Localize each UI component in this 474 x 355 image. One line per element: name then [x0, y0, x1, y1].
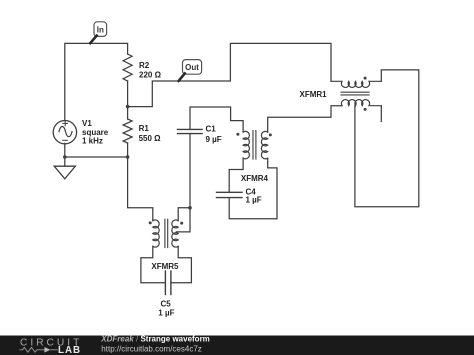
- wire C5 to XFMR5 right coil bottom: [171, 246, 192, 282]
- node junction C1/XFMR5: [188, 206, 192, 210]
- wire XFMR1 secondary right dangling stub: [380, 106, 382, 122]
- wire C4 bottom loop to XFMR4 right coil bottom: [229, 158, 277, 218]
- footer bar: [0, 335, 474, 355]
- voltage source V1: [53, 119, 109, 146]
- wire V1 bottom lead: [64, 143, 66, 157]
- capacitor C1: [178, 124, 222, 144]
- svg-text:C5: C5: [161, 300, 172, 309]
- svg-text:square: square: [82, 128, 109, 137]
- wire R2 bottom to R1 top: [127, 81, 129, 119]
- wire XFMR5 left coil bottom to C5: [141, 246, 166, 282]
- node junction V1/ground: [63, 155, 67, 159]
- wire Out net: [128, 43, 331, 106]
- transformer XFMR5: [149, 219, 184, 271]
- svg-text:1 µF: 1 µF: [246, 196, 262, 205]
- resistor R2: [123, 54, 161, 81]
- wire In net: V1 top to R2 top: [65, 43, 128, 120]
- svg-text:550 Ω: 550 Ω: [139, 134, 162, 143]
- wire bottom rail: [65, 156, 128, 158]
- wire C1 top to XFMR4 left coil top: [190, 107, 243, 132]
- wire C1 bottom: [189, 134, 191, 208]
- wire XFMR4 right coil top to XFMR1 secondary left: [268, 106, 342, 132]
- svg-text:V1: V1: [82, 119, 92, 128]
- wire R1 bottom lead: [127, 143, 129, 157]
- node Out flag: [179, 60, 202, 81]
- svg-text:R1: R1: [139, 124, 150, 133]
- capacitor C4: [217, 188, 262, 205]
- transformer XFMR1: [300, 77, 382, 111]
- svg-text:1 µF: 1 µF: [158, 309, 174, 318]
- svg-text:220 Ω: 220 Ω: [139, 70, 162, 79]
- svg-text:XFMR4: XFMR4: [241, 174, 269, 183]
- svg-text:In: In: [97, 25, 104, 34]
- svg-text:C1: C1: [206, 124, 217, 133]
- svg-text:Out: Out: [185, 63, 199, 72]
- svg-text:XDFreak / Strange waveform: XDFreak / Strange waveform: [100, 335, 210, 344]
- resistor R1: [123, 119, 161, 143]
- node junction R2/R1/Out: [126, 105, 130, 109]
- ground: [54, 157, 75, 179]
- transformer XFMR4: [236, 131, 271, 183]
- svg-text:XFMR1: XFMR1: [300, 90, 328, 99]
- svg-text:http://circuitlab.com/ces4c7z: http://circuitlab.com/ces4c7z: [101, 344, 201, 353]
- svg-text:LAB: LAB: [58, 345, 81, 355]
- svg-text:XFMR5: XFMR5: [151, 262, 179, 271]
- capacitor C5: [158, 271, 174, 318]
- wire XFMR4 left coil bottom to C4: [229, 158, 243, 192]
- node In flag: [90, 22, 106, 43]
- wire left column to XFMR5 left primary: [128, 157, 153, 221]
- svg-text:R2: R2: [139, 61, 150, 70]
- node junction R1 bottom: [126, 155, 130, 159]
- svg-text:9 µF: 9 µF: [206, 135, 222, 144]
- wire XFMR5 right coil tap hook: [176, 208, 190, 232]
- svg-text:1 kHz: 1 kHz: [82, 137, 103, 146]
- wire XFMR1 primary right to right rail and center tap: [355, 70, 419, 207]
- wire XFMR5 right coil top stub: [178, 208, 190, 221]
